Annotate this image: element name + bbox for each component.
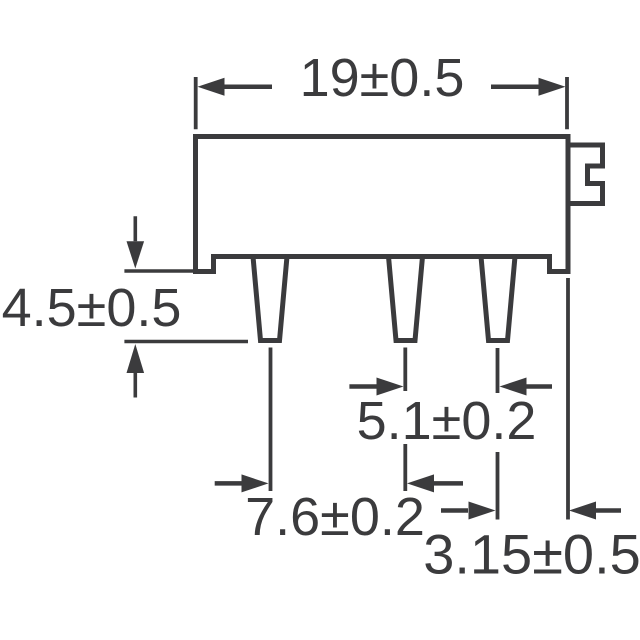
svg-text:4.5±0.5: 4.5±0.5 xyxy=(2,278,182,338)
svg-text:7.6±0.2: 7.6±0.2 xyxy=(245,487,425,547)
svg-text:5.1±0.2: 5.1±0.2 xyxy=(357,391,537,451)
svg-text:3.15±0.5: 3.15±0.5 xyxy=(423,523,640,586)
svg-text:19±0.5: 19±0.5 xyxy=(300,48,465,108)
